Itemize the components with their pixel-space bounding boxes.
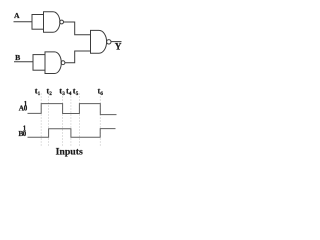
svg-text:2: 2: [49, 91, 52, 97]
svg-text:B: B: [15, 53, 20, 62]
svg-text:0: 0: [24, 105, 28, 113]
svg-text:5: 5: [76, 91, 79, 97]
svg-text:3: 3: [62, 91, 65, 97]
svg-text:Y: Y: [115, 43, 122, 53]
svg-text:0: 0: [23, 131, 27, 138]
svg-text:1: 1: [38, 91, 41, 97]
svg-text:4: 4: [69, 91, 72, 97]
svg-text:6: 6: [100, 91, 103, 97]
svg-text:Inputs: Inputs: [56, 146, 83, 157]
svg-text:A: A: [14, 11, 20, 20]
